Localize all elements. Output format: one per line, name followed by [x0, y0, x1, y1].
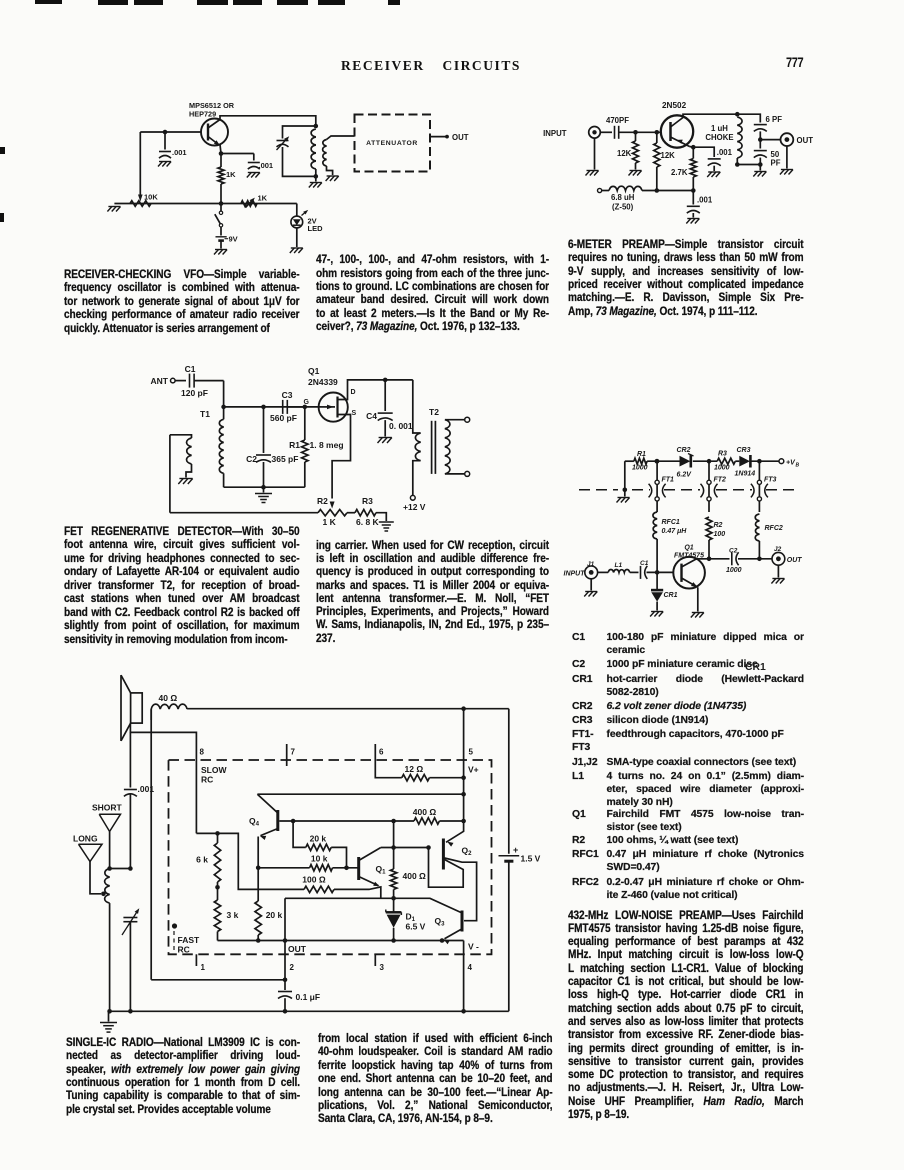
resistor R3 1000 [714, 451, 735, 472]
wire speaker to pin8 [130, 723, 196, 833]
svg-text:100 Ω: 100 Ω [302, 875, 326, 885]
wire OUT vfo [430, 133, 469, 142]
svg-text:1 K: 1 K [323, 517, 337, 527]
svg-text:CHOKE: CHOKE [705, 133, 733, 142]
capacitor C1 120pF [181, 364, 224, 398]
svg-text:HEP729: HEP729 [189, 110, 216, 119]
wire slow rc riser [218, 833, 305, 889]
diode D1 zener [386, 898, 426, 943]
label SLOW RC [201, 765, 227, 785]
svg-text:FMT4575: FMT4575 [674, 552, 704, 559]
node out junction [758, 137, 763, 142]
inductor L1 432 [598, 562, 639, 572]
tank inductor L1 [311, 124, 318, 179]
node RFC2 bottom [757, 557, 762, 562]
feedthrough FT2 [701, 461, 727, 512]
svg-text:G: G [304, 399, 310, 406]
resistor 3 k [214, 887, 238, 940]
wire emitter 432 [691, 587, 704, 617]
svg-text:1 uH: 1 uH [711, 124, 728, 133]
wire out to speaker [151, 979, 285, 981]
svg-text:ANT: ANT [151, 376, 169, 386]
capacitor .001 bottom preamp [686, 191, 713, 224]
capacitor .001 radio [124, 732, 154, 868]
svg-text:FT3: FT3 [764, 477, 777, 484]
label V minus [468, 942, 479, 952]
pin 7 stub [287, 744, 296, 766]
switch S1 [215, 204, 223, 236]
node gate [303, 405, 308, 410]
variable capacitor tuning [122, 908, 139, 1011]
node emitter resistor bottom [691, 188, 696, 193]
resistor 20 k lower [255, 868, 283, 941]
dashed chassis line [579, 489, 796, 491]
svg-text:PF: PF [771, 159, 781, 168]
pin 3 stub [375, 954, 384, 972]
svg-text:LED: LED [308, 224, 324, 233]
svg-text:+12 V: +12 V [403, 502, 426, 512]
svg-text:.001: .001 [717, 148, 733, 157]
svg-text:RC: RC [201, 775, 213, 785]
transistor Q4 [249, 794, 278, 840]
pin 6 wire [375, 744, 402, 778]
svg-text:1. 8 meg: 1. 8 meg [310, 440, 344, 450]
wire V+ branch [257, 792, 466, 797]
svg-text:2.7K: 2.7K [671, 168, 688, 177]
node FT1 rail [655, 459, 660, 464]
wire R1 left down [617, 461, 630, 502]
label MPS6512 OR HEP729 [189, 101, 235, 119]
ground tank [309, 176, 322, 187]
svg-text:T2: T2 [429, 407, 439, 417]
svg-text:0. 001: 0. 001 [389, 421, 413, 431]
svg-text:3 k: 3 k [227, 910, 239, 920]
svg-text:6.2V: 6.2V [677, 472, 693, 479]
svg-text:10 k: 10 k [311, 854, 328, 864]
svg-text:T1: T1 [200, 409, 210, 419]
svg-text:+: + [513, 845, 518, 855]
svg-text:R1: R1 [289, 440, 300, 450]
coupling coil [323, 136, 355, 181]
svg-text:CR1: CR1 [664, 592, 678, 599]
FAST RC terminal [172, 923, 200, 954]
wire pin 2 [283, 898, 295, 982]
svg-text:Q2: Q2 [462, 846, 473, 858]
svg-text:J1: J1 [587, 561, 595, 568]
svg-text:LONG: LONG [73, 834, 98, 844]
IC LM3909 dashed box [169, 760, 492, 954]
diode CR3 1N914 [735, 447, 756, 478]
wire Q4 base [279, 819, 414, 824]
resistor 20 k upper [293, 821, 346, 868]
feedthrough FT1 [649, 461, 674, 512]
svg-text:100: 100 [714, 531, 726, 538]
label OUT pin2 [288, 944, 307, 954]
svg-text:1K: 1K [258, 194, 268, 203]
svg-text:C1: C1 [185, 364, 196, 374]
resistor 12K base [654, 130, 675, 190]
resistor 12 ohm [402, 764, 466, 781]
ground bus left [107, 207, 120, 212]
svg-text:V+: V+ [468, 765, 479, 775]
capacitor C3 560pF [270, 390, 305, 423]
svg-text:J2: J2 [774, 546, 782, 553]
resistor 400 ohm lower [390, 821, 426, 901]
capacitor .001 bypass left [158, 132, 187, 167]
resistor 10 k [258, 854, 359, 872]
inductor 40 ohm coil [151, 693, 187, 720]
jack INPUT preamp [543, 127, 600, 176]
node emitter 2N502 [690, 145, 696, 150]
svg-text:B: B [796, 463, 800, 469]
terminal +12V [403, 495, 426, 512]
wire ant to grid node [221, 381, 226, 410]
resistor R2 100 [706, 517, 725, 559]
svg-text:SHORT: SHORT [92, 803, 123, 813]
pin 1 stub [196, 954, 205, 972]
svg-text:6: 6 [379, 748, 384, 757]
capacitor C1 432 [640, 560, 673, 579]
node collector 432 [707, 557, 712, 562]
resistor R1 1.8meg [289, 407, 343, 487]
svg-text:40 Ω: 40 Ω [159, 693, 178, 703]
resistor 12K input [617, 130, 642, 176]
diode CR1 [650, 572, 678, 616]
transformer T2 secondary [445, 417, 470, 476]
svg-text:Q1: Q1 [308, 366, 320, 376]
potentiometer R2 1K [317, 496, 347, 527]
svg-text:R1: R1 [637, 451, 646, 458]
wire grid bus [224, 405, 321, 410]
svg-text:1: 1 [201, 963, 206, 972]
svg-text:400 Ω: 400 Ω [413, 807, 437, 817]
speaker [121, 675, 142, 741]
svg-text:SLOW: SLOW [201, 765, 227, 775]
svg-text:C1: C1 [640, 560, 649, 567]
inductor 1uH choke [705, 112, 742, 167]
resistor 400 ohm upper [413, 807, 466, 824]
svg-text:20 k: 20 k [266, 910, 283, 920]
svg-text:0.1 μF: 0.1 μF [296, 992, 321, 1002]
transformer T1 label [200, 409, 210, 419]
resistor 100 ohm [302, 875, 381, 899]
wire source down [330, 420, 351, 509]
capacitor .001 emitter bypass [247, 154, 273, 178]
svg-text:INPUT: INPUT [543, 129, 567, 138]
wire emitter to bypass cap [221, 153, 254, 155]
ground R3 [376, 513, 394, 531]
node choke top [655, 188, 660, 193]
wire left branch to 10K pot [138, 132, 143, 202]
svg-text:120 pF: 120 pF [181, 388, 208, 398]
node R3 left [707, 459, 712, 464]
transistor 2N502 [661, 101, 693, 148]
node loopstick top [107, 866, 132, 871]
resistor 6 k [196, 833, 221, 889]
svg-text:6 k: 6 k [196, 855, 208, 865]
transformer T2 primary [413, 433, 421, 495]
jack OUT preamp [760, 133, 813, 174]
choke RFC1 [653, 512, 687, 572]
wire Q1 collector [381, 845, 431, 850]
wire collector top preamp [683, 114, 737, 117]
svg-text:R2: R2 [317, 496, 328, 506]
wire Q4 emitter riser [256, 837, 261, 871]
svg-text:4: 4 [468, 963, 473, 972]
svg-text:.001: .001 [172, 148, 187, 157]
capacitor 50 PF [754, 140, 781, 168]
battery 1.5V [499, 709, 541, 1012]
wire out riser [150, 709, 152, 980]
svg-text:10K: 10K [144, 193, 158, 202]
transistor Q1 FMT4575 [673, 545, 709, 589]
transformer T1 primary [170, 435, 193, 484]
wire out loop [285, 897, 394, 899]
ferrite loopstick coil [101, 869, 110, 1012]
wire choke bottom [737, 162, 766, 176]
svg-text:V -: V - [468, 942, 479, 952]
inductor 6.8 uH [598, 186, 694, 211]
svg-text:1K: 1K [226, 170, 236, 179]
jack J2 out [771, 546, 802, 584]
svg-text:1000: 1000 [632, 465, 648, 472]
jack J1 input [564, 561, 598, 597]
svg-text:OUT: OUT [452, 133, 469, 142]
svg-text:0.47 μH: 0.47 μH [662, 528, 688, 535]
svg-text:8: 8 [200, 748, 205, 757]
svg-text:.001: .001 [697, 196, 713, 205]
svg-text:C4: C4 [366, 411, 377, 421]
svg-text:OUT: OUT [787, 557, 803, 564]
FET Q1 2N4339 [304, 366, 357, 422]
svg-text:12 Ω: 12 Ω [405, 764, 424, 774]
transformer T2 core [429, 407, 439, 474]
wire top rail radio [187, 706, 509, 711]
svg-text:1000: 1000 [726, 567, 742, 574]
svg-text:S: S [352, 410, 357, 417]
svg-text:2N502: 2N502 [662, 101, 687, 110]
wire pin 4 [464, 941, 473, 1012]
svg-text:6 PF: 6 PF [766, 115, 783, 124]
wire top rail 432 [625, 460, 779, 462]
attenuator box [355, 115, 431, 172]
svg-text:5: 5 [469, 748, 474, 757]
wire V minus [218, 938, 464, 943]
capacitor 470PF [600, 116, 661, 139]
svg-text:R3: R3 [362, 496, 373, 506]
svg-text:FT2: FT2 [714, 477, 727, 484]
svg-text:6.5 V: 6.5 V [406, 922, 426, 932]
svg-text:12K: 12K [661, 151, 676, 160]
wire Q3 collector [394, 898, 461, 912]
node CR2 left [655, 459, 660, 464]
ground detector [255, 487, 272, 502]
node emitter junction [219, 145, 224, 156]
resistor R3 6.8K [355, 496, 380, 527]
svg-text:RC: RC [178, 945, 190, 955]
transistor Q3 [435, 911, 463, 945]
transistor Q2 [429, 821, 477, 921]
capacitor .001 emitter preamp [693, 147, 732, 177]
svg-text:INPUT: INPUT [564, 571, 586, 578]
svg-text:470PF: 470PF [606, 116, 629, 125]
potentiometer 10K [130, 193, 158, 207]
resistor R1 1000 [632, 451, 648, 472]
wire output 432 [709, 558, 730, 560]
svg-text:OUT: OUT [288, 944, 307, 954]
svg-text:1.5 V: 1.5 V [521, 854, 541, 864]
svg-text:9V: 9V [229, 235, 238, 244]
svg-text:OUT: OUT [797, 136, 814, 145]
wire bottom bus [114, 201, 296, 206]
svg-text:12K: 12K [617, 149, 632, 158]
svg-text:365 pF: 365 pF [272, 454, 299, 464]
wire base net Q1 VFO [140, 130, 201, 135]
wire R2 to R3 [347, 512, 355, 514]
node CR3 right [757, 459, 762, 464]
svg-text:C3: C3 [282, 390, 293, 400]
capacitor C4 0.001 [366, 380, 413, 443]
svg-text:6. 8 K: 6. 8 K [356, 517, 380, 527]
svg-text:L1: L1 [615, 562, 623, 569]
svg-text:ATTENUATOR: ATTENUATOR [366, 140, 418, 147]
capacitor C2 365pF [246, 407, 298, 487]
svg-text:CR3: CR3 [737, 447, 751, 454]
transformer T1 secondary [219, 407, 223, 487]
terminal ANT [151, 376, 186, 386]
node base 432 [655, 570, 660, 575]
resistor 1K emitter [218, 154, 236, 204]
svg-text:1000: 1000 [714, 465, 730, 472]
svg-text:R3: R3 [718, 451, 727, 458]
svg-text:6.8 uH: 6.8 uH [611, 193, 635, 202]
svg-text:Q3: Q3 [435, 916, 446, 928]
resistor 2.7K [671, 147, 696, 190]
svg-text:400 Ω: 400 Ω [403, 871, 427, 881]
diode CR2 zener [677, 447, 694, 479]
choke RFC2 [755, 514, 783, 559]
transistor Q MPS6512 [201, 119, 228, 146]
svg-text:D: D [351, 389, 356, 396]
pin 5 wire [464, 709, 474, 821]
svg-text:Q1: Q1 [376, 864, 387, 876]
terminal +VB [779, 459, 800, 469]
antenna LONG [73, 834, 102, 894]
feedthrough FT3 [751, 461, 777, 512]
LED 2V [290, 204, 323, 254]
svg-text:2N4339: 2N4339 [308, 377, 338, 387]
wire collector to tank [220, 116, 316, 126]
wire bottom bus radio [107, 1009, 509, 1014]
svg-text:R2: R2 [714, 522, 723, 529]
wire plus12 branch [413, 380, 421, 433]
svg-text:.001: .001 [138, 784, 155, 794]
svg-text:7: 7 [291, 748, 296, 757]
wire top to 6PF [737, 114, 760, 122]
svg-text:3: 3 [380, 963, 385, 972]
wire bottom bus detector [224, 485, 305, 490]
wire regen bottom bus [170, 512, 318, 514]
capacitor C2 1000 [726, 548, 772, 575]
svg-text:RFC1: RFC1 [662, 519, 680, 526]
svg-text:20 k: 20 k [310, 834, 327, 844]
svg-text:1N914: 1N914 [735, 471, 756, 478]
svg-text:FAST: FAST [178, 935, 201, 945]
pin 8 label [200, 748, 205, 757]
wire left regen loop [169, 435, 171, 513]
ground radio main [100, 1011, 117, 1032]
svg-text:2: 2 [290, 963, 295, 972]
svg-text:C2: C2 [246, 454, 257, 464]
wire drain to top [348, 378, 413, 396]
svg-text:CR2: CR2 [677, 447, 691, 454]
transistor Q1 radio [359, 848, 386, 887]
wire pin8 internal [196, 831, 219, 836]
antenna SHORT [92, 803, 123, 869]
svg-text:Q1: Q1 [684, 545, 693, 552]
battery 9V [214, 235, 238, 255]
label V plus [468, 765, 479, 775]
rheostat 1K [241, 194, 268, 208]
svg-text:Q4: Q4 [249, 816, 260, 828]
svg-text:FT1: FT1 [662, 477, 675, 484]
svg-text:560 pF: 560 pF [270, 413, 297, 423]
svg-text:.001: .001 [259, 161, 274, 170]
svg-text:(Z-50): (Z-50) [612, 203, 634, 212]
capacitor 0.1 uF [278, 980, 320, 1012]
svg-text:C2: C2 [729, 548, 738, 555]
svg-text:RFC2: RFC2 [765, 525, 783, 532]
capacitor 6 PF [754, 115, 782, 140]
tank variable capacitor [277, 126, 316, 176]
